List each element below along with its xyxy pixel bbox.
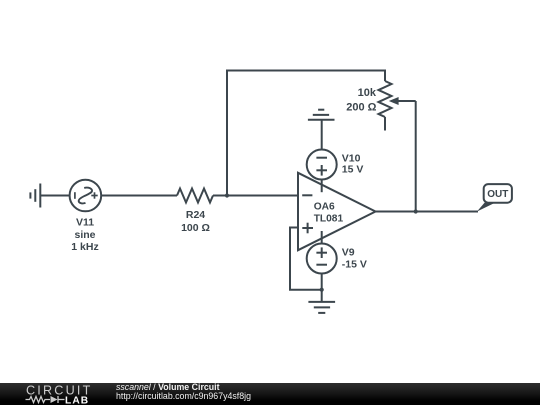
svg-text:OUT: OUT	[487, 189, 508, 200]
svg-text:-15 V: -15 V	[342, 258, 367, 270]
label R24 100 Ω	[181, 209, 210, 234]
svg-text:sine: sine	[74, 229, 95, 241]
wire feedback (node up and over to potentiometer top)	[227, 71, 385, 196]
svg-text:200 Ω: 200 Ω	[346, 102, 376, 114]
svg-text:V11: V11	[76, 217, 94, 229]
op-amp minus input marker	[302, 194, 312, 196]
node junction at ground net	[320, 288, 324, 292]
svg-text:LAB: LAB	[65, 396, 89, 405]
CircuitLab logo	[0, 383, 110, 405]
attribution text	[116, 383, 251, 401]
ground (left, at V11 negative terminal)	[30, 184, 40, 208]
wire op-amp output	[376, 211, 479, 213]
label OA6 TL081	[314, 201, 344, 224]
voltage source V9	[307, 244, 337, 274]
ground (flipped, above V10)	[308, 110, 335, 120]
label V11 sine 1 kHz	[71, 217, 98, 254]
wire R24 to op-amp inverting input	[213, 195, 298, 197]
label V10 15 V	[342, 152, 364, 175]
resistor R24	[177, 189, 213, 203]
wire ground to V10	[321, 120, 323, 150]
label V9 -15 V	[342, 246, 367, 270]
svg-text:R24: R24	[186, 209, 205, 221]
label 10k 200 Ω	[346, 87, 377, 114]
ground (below V9)	[308, 290, 335, 313]
wire ground to V11	[41, 195, 70, 197]
wire V10 positive pin into op-amp top	[321, 180, 323, 193]
svg-text:15 V: 15 V	[342, 164, 364, 176]
svg-text:V10: V10	[342, 152, 361, 164]
svg-text:10k: 10k	[358, 87, 377, 99]
op-amp OA6 TL081	[298, 173, 376, 250]
voltage source V11 (sine)	[70, 180, 102, 212]
wire V9 negative to ground node	[321, 274, 323, 290]
svg-text:TL081: TL081	[314, 213, 344, 224]
node junction at R24 / feedback	[225, 193, 229, 197]
op-amp plus input marker	[302, 223, 313, 234]
voltage source V10	[307, 150, 337, 180]
wire V11 to R24	[101, 195, 177, 197]
potentiometer 10k / 200 Ω (body)	[379, 81, 392, 131]
svg-text:100 Ω: 100 Ω	[181, 222, 210, 234]
wire wiper down to output node	[415, 101, 417, 212]
svg-text:OA6: OA6	[314, 201, 335, 212]
wire op-amp plus input to ground node	[290, 228, 322, 290]
wire V9 positive pin into op-amp bottom	[321, 231, 323, 244]
node junction at output	[414, 209, 418, 213]
potentiometer wiper arrow	[389, 97, 416, 105]
node OUT flag	[477, 184, 512, 211]
svg-text:1 kHz: 1 kHz	[71, 241, 98, 253]
svg-text:V9: V9	[342, 246, 355, 258]
footer bar	[0, 383, 540, 405]
